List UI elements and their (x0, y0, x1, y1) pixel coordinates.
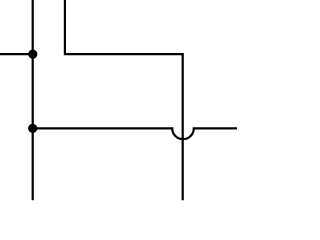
wire: lower horizontal run with crossover hop under right vertical (33, 128, 237, 139)
node A (junction dot, upper) (28, 50, 37, 59)
wire: left vertical bus (32, 0, 34, 200)
node B (junction dot, lower) (28, 124, 37, 133)
wire: top L-shaped run down the right side (65, 0, 183, 200)
wire: upper-left horizontal stub into node (0, 53, 33, 55)
